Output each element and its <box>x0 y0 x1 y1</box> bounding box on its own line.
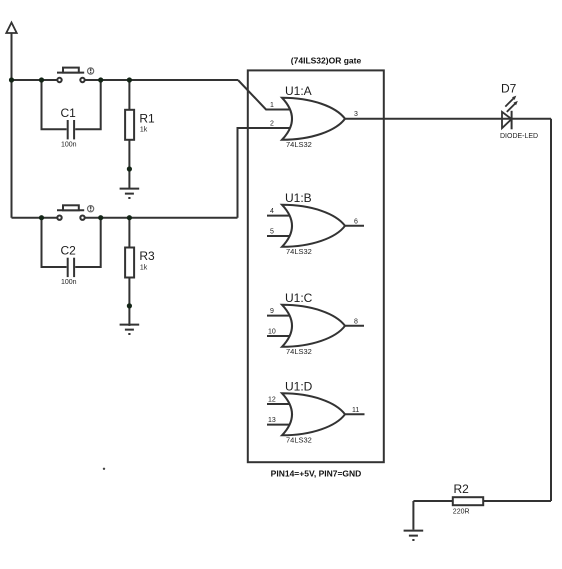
wire U1:A output pin 3 to LED and right rail <box>345 118 551 120</box>
wire +V rail <box>11 33 13 218</box>
svg-text:U1:B: U1:B <box>285 191 312 205</box>
wire U1:D input pin 12 stub <box>267 403 292 405</box>
svg-text:C1: C1 <box>61 106 77 120</box>
IC U1 package box (74LS32) <box>248 70 384 462</box>
wire row1 to U1:A pin 1 (diagonal) <box>238 80 292 110</box>
svg-text:5: 5 <box>270 229 274 236</box>
ground (R3) <box>120 325 140 334</box>
svg-text:74LS32: 74LS32 <box>286 140 312 149</box>
or-gate U1:C <box>282 305 345 347</box>
svg-text:1k: 1k <box>140 127 148 134</box>
pushbutton switch SW2 <box>57 205 94 220</box>
junction node C1 top <box>39 77 44 82</box>
wire row1 left segment <box>12 79 58 81</box>
svg-text:11: 11 <box>352 407 359 414</box>
capacitor C2 <box>42 218 101 277</box>
or-gate U1:D <box>282 393 345 435</box>
junction node SW1 out <box>98 77 103 82</box>
svg-text:74LS32: 74LS32 <box>286 247 312 256</box>
resistor R2 <box>453 497 483 505</box>
junction node C2 top <box>39 215 44 220</box>
junction node R3 bottom <box>127 303 132 308</box>
wire row2 left segment <box>12 217 58 219</box>
junction node R1 bottom <box>127 166 132 171</box>
wire U1:B input pin 5 stub <box>267 235 292 237</box>
wire U1:B input pin 4 stub <box>267 215 292 217</box>
svg-text:4: 4 <box>270 208 274 215</box>
svg-text:100n: 100n <box>61 279 77 286</box>
capacitor C1 <box>42 80 101 139</box>
svg-text:1: 1 <box>270 102 274 109</box>
diode-LED D7 <box>502 96 518 130</box>
wire right rail down from LED <box>550 119 552 501</box>
svg-text:13: 13 <box>268 417 276 424</box>
wire bottom segment to R2 <box>413 500 551 502</box>
svg-text:2: 2 <box>270 121 274 128</box>
wire U1:C output pin 8 stub <box>345 325 364 327</box>
power supply arrow (+V) <box>6 23 16 34</box>
svg-text:6: 6 <box>354 218 358 225</box>
wire U1:B output pin 6 stub <box>345 225 364 227</box>
or-gate U1:A <box>282 98 345 140</box>
svg-text:12: 12 <box>268 397 276 404</box>
svg-text:(74ILS32)OR gate: (74ILS32)OR gate <box>291 56 362 66</box>
resistor R1 <box>125 80 134 188</box>
svg-text:U1:D: U1:D <box>285 379 313 393</box>
svg-text:R2: R2 <box>454 482 470 496</box>
wire U1:D output pin 11 stub <box>345 413 365 415</box>
svg-text:D7: D7 <box>501 82 517 96</box>
svg-text:PIN14=+5V, PIN7=GND: PIN14=+5V, PIN7=GND <box>271 469 362 479</box>
junction node R3 top <box>127 215 132 220</box>
svg-text:3: 3 <box>354 111 358 118</box>
wire R2 to ground <box>412 501 414 530</box>
wire U1:C input pin 10 stub <box>267 335 292 337</box>
svg-text:C2: C2 <box>61 244 77 258</box>
svg-text:DIODE-LED: DIODE-LED <box>500 133 538 140</box>
stray ink dot <box>103 468 105 470</box>
svg-text:74LS32: 74LS32 <box>286 347 312 356</box>
ground (R1) <box>120 189 140 198</box>
svg-text:R1: R1 <box>139 111 155 125</box>
wire U1:C input pin 9 stub <box>267 315 292 317</box>
svg-text:1k: 1k <box>140 264 148 271</box>
wire U1:D input pin 13 stub <box>267 424 292 426</box>
wire row2 middle segment <box>85 217 238 219</box>
svg-text:U1:A: U1:A <box>285 84 312 98</box>
svg-text:74LS32: 74LS32 <box>286 435 312 444</box>
ground (R2) <box>404 531 424 540</box>
pushbutton switch SW1 <box>57 68 94 83</box>
or-gate U1:B <box>282 205 345 247</box>
resistor R3 <box>125 218 134 326</box>
svg-text:10: 10 <box>268 329 276 336</box>
svg-text:100n: 100n <box>61 141 77 148</box>
wire row1 middle segment <box>85 79 238 81</box>
wire row2 up to U1:A pin 2 <box>238 128 293 218</box>
junction node SW2 out <box>98 215 103 220</box>
svg-text:U1:C: U1:C <box>285 291 313 305</box>
svg-text:R3: R3 <box>139 249 155 263</box>
junction node R1 top <box>127 77 132 82</box>
junction node +V / row1 <box>9 77 14 82</box>
svg-text:9: 9 <box>270 308 274 315</box>
svg-text:8: 8 <box>354 318 358 325</box>
svg-text:220R: 220R <box>453 509 470 516</box>
